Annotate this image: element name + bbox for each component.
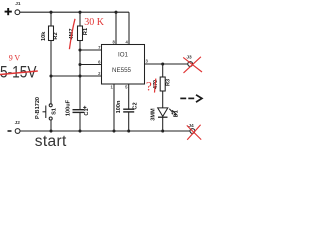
annotation X over J4 bbox=[187, 125, 201, 140]
wire pin3 output bbox=[145, 63, 188, 65]
wire pin6 bbox=[80, 64, 102, 66]
svg-text:R2: R2 bbox=[53, 32, 59, 39]
LED D1 arrow 2 bbox=[172, 110, 176, 114]
connector J3 circle bbox=[188, 62, 193, 67]
node pin2 left bbox=[49, 74, 52, 77]
svg-text:J2: J2 bbox=[15, 120, 21, 126]
connector J2 circle bbox=[15, 129, 20, 134]
wire top rail bbox=[20, 11, 129, 13]
svg-text:start: start bbox=[35, 133, 67, 150]
node R2 top bbox=[49, 11, 52, 14]
wire bottom rail bbox=[20, 130, 190, 132]
wire pin4 drop bbox=[128, 12, 130, 44]
svg-text:3MM: 3MM bbox=[150, 108, 156, 121]
switch S1 lever bbox=[45, 106, 47, 119]
svg-text:R1: R1 bbox=[83, 28, 89, 35]
node pin6 bbox=[78, 63, 81, 66]
svg-text:IO1: IO1 bbox=[118, 52, 129, 59]
annotation strike over 4M7 bbox=[69, 19, 75, 49]
wire switch to bottom rail bbox=[50, 120, 52, 131]
wire pin5 drop to C2 bbox=[128, 84, 130, 109]
svg-text:10k: 10k bbox=[41, 31, 47, 41]
wire R1 column upper bbox=[79, 12, 81, 26]
switch S1 contact bottom bbox=[49, 117, 52, 120]
svg-text:D1: D1 bbox=[174, 110, 180, 117]
text dashed arrow bbox=[180, 95, 202, 102]
annotation strike over 5-15V bbox=[0, 71, 38, 75]
capacitor C1 plates bbox=[73, 109, 85, 111]
LED D1 cathode bar bbox=[158, 116, 168, 118]
wire pin2 bbox=[51, 75, 102, 77]
LED D1 arrow 1 bbox=[169, 109, 173, 113]
wire pin7 bbox=[80, 49, 102, 51]
connector J1 circle bbox=[15, 10, 20, 15]
switch S1 actuator bbox=[43, 111, 46, 113]
polarity - of J2 bbox=[8, 130, 12, 132]
node pin3 bbox=[161, 62, 164, 65]
junction dots bbox=[49, 11, 164, 133]
node bottom C1 bbox=[78, 129, 81, 132]
node pin2 mid bbox=[78, 74, 81, 77]
node R1 top bbox=[78, 11, 81, 14]
svg-text:?: ? bbox=[146, 78, 152, 93]
plus of C1 bbox=[83, 106, 86, 109]
svg-text:C1: C1 bbox=[84, 108, 90, 115]
capacitor C2 plates bbox=[123, 108, 134, 110]
svg-text:R3: R3 bbox=[166, 79, 172, 86]
svg-text:P-B1720: P-B1720 bbox=[35, 97, 41, 119]
wire R1 column lower to C1 bbox=[79, 41, 81, 110]
svg-text:100uF: 100uF bbox=[65, 99, 71, 116]
annotation X over J3 bbox=[183, 57, 202, 73]
annotation strike over 470 bbox=[155, 79, 156, 93]
svg-text:S1: S1 bbox=[51, 108, 57, 115]
node pin7 bbox=[78, 48, 81, 51]
LED D1 triangle bbox=[158, 108, 168, 117]
switch S1 contact top bbox=[49, 104, 52, 107]
resistor R3 body bbox=[160, 77, 165, 91]
node bottom C2 bbox=[127, 129, 130, 132]
wire R2 column lower to switch bbox=[50, 41, 52, 104]
svg-text:C2: C2 bbox=[132, 102, 138, 109]
resistor R2 body bbox=[49, 26, 54, 41]
connector J4 circle bbox=[190, 129, 195, 134]
node pin8 bbox=[114, 11, 117, 14]
svg-text:J3: J3 bbox=[186, 55, 192, 61]
svg-text:100n: 100n bbox=[116, 100, 122, 113]
svg-text:J1: J1 bbox=[15, 1, 21, 7]
node bottom LED bbox=[161, 129, 164, 132]
wire R3 to LED bbox=[162, 91, 164, 108]
svg-text:9 V: 9 V bbox=[9, 53, 21, 62]
resistor R1 body bbox=[78, 26, 83, 41]
LED arrowheads bbox=[171, 113, 174, 115]
wire LED to bottom rail bbox=[162, 117, 164, 131]
svg-text:NE555: NE555 bbox=[112, 67, 131, 74]
polarity + of J1 bbox=[5, 8, 12, 15]
wire R3 top lead bbox=[162, 64, 164, 77]
op-amp IC IO1 NE555 box bbox=[102, 45, 145, 85]
wire C1 to bottom rail bbox=[79, 112, 81, 131]
wire R2 column upper bbox=[50, 12, 52, 26]
wire pin8 drop bbox=[115, 12, 117, 44]
svg-text:30 K: 30 K bbox=[84, 17, 105, 28]
wire pin1 drop bbox=[113, 84, 115, 131]
wire C2 to bottom rail bbox=[128, 112, 130, 131]
node bottom S1 bbox=[49, 129, 52, 132]
node bottom pin1 bbox=[112, 129, 115, 132]
